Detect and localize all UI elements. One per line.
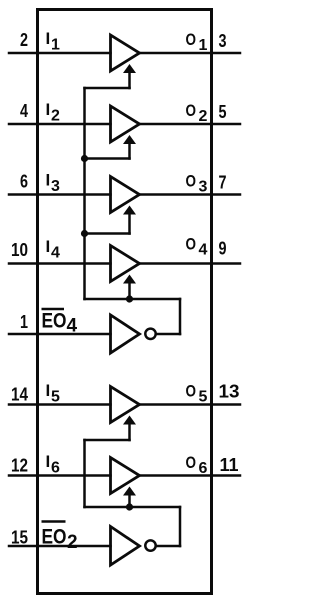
enable arrow into buffer U1	[123, 64, 136, 88]
svg-text:O: O	[186, 235, 197, 254]
node label O1	[186, 30, 208, 54]
wire EO4 feedback riser	[179, 299, 182, 334]
svg-text:4: 4	[20, 101, 28, 121]
node label I2	[46, 100, 61, 125]
buffer U6 (I6→O6)	[111, 458, 140, 494]
svg-text:10: 10	[11, 240, 28, 260]
wire EO4 enable trunk vertical	[83, 88, 86, 299]
svg-text:6: 6	[20, 172, 28, 192]
wire O4 output (buffer 4 to pin 9)	[140, 262, 241, 265]
wire O3 output (buffer 3 to pin 7)	[140, 193, 241, 196]
wire I5 input (pin 14 to buffer 5)	[9, 403, 111, 406]
svg-text:O: O	[186, 30, 197, 49]
inverter U8 output bubble	[145, 540, 155, 550]
svg-text:2: 2	[20, 30, 28, 50]
buffer U5 (I5→O5)	[111, 387, 140, 423]
wire branch to buffer U1	[85, 87, 130, 90]
inverter U7 output bubble	[145, 329, 155, 339]
wire EO4 enable bus horizontal	[85, 298, 181, 301]
svg-text:I: I	[46, 381, 51, 400]
enable arrow into buffer U3	[123, 206, 136, 234]
inverter U7 (EO4 enable)	[111, 315, 140, 353]
wire branch to buffer U5	[85, 439, 130, 442]
svg-text:1: 1	[20, 312, 28, 332]
svg-text:14: 14	[11, 385, 28, 405]
svg-text:5: 5	[199, 389, 208, 406]
node label I3	[46, 171, 61, 196]
svg-text:12: 12	[11, 456, 28, 476]
wire I6 input (pin 12 to buffer 6)	[9, 474, 111, 477]
svg-text:5: 5	[51, 389, 60, 406]
node label I6	[46, 452, 61, 477]
svg-text:I: I	[46, 100, 51, 119]
svg-text:3: 3	[219, 31, 227, 51]
enable arrow into buffer U5	[123, 416, 136, 441]
svg-text:15: 15	[11, 528, 28, 548]
wire I3 input (pin 6 to buffer 3)	[9, 193, 111, 196]
svg-text:1: 1	[51, 37, 60, 54]
node label I1	[46, 29, 61, 54]
node label O4	[186, 235, 208, 259]
svg-text:EO: EO	[42, 526, 67, 549]
svg-text:5: 5	[219, 102, 227, 122]
wire branch to buffer U2	[85, 157, 130, 160]
enable arrow into buffer U4	[123, 275, 136, 300]
junction dot enable bus/branch U4	[126, 295, 133, 302]
svg-text:I: I	[46, 452, 51, 471]
node label O5	[186, 382, 208, 406]
wire inverter U7 bubble to feedback riser	[156, 333, 180, 336]
net label EO4 with overline	[42, 309, 78, 337]
svg-text:O: O	[186, 382, 197, 401]
svg-text:EO: EO	[42, 310, 67, 333]
svg-text:O: O	[186, 101, 197, 120]
svg-text:7: 7	[219, 173, 227, 193]
wire EO2 feedback riser	[179, 507, 182, 546]
svg-text:3: 3	[199, 179, 208, 196]
node label O3	[186, 172, 208, 196]
node label O6	[186, 453, 208, 477]
net label EO2 with overline	[42, 522, 78, 554]
wire O2 output (buffer 2 to pin 5)	[140, 123, 241, 126]
svg-text:I: I	[46, 237, 51, 256]
wire EO4 input (pin 1 to inverter U7)	[9, 333, 111, 336]
wire I2 input (pin 4 to buffer 2)	[9, 123, 111, 126]
wire I4 input (pin 10 to buffer 4)	[9, 262, 111, 265]
wire I1 input (pin 2 to buffer 1)	[9, 52, 111, 55]
svg-text:3: 3	[51, 178, 60, 195]
svg-text:4: 4	[67, 316, 78, 337]
wire inverter U8 bubble to feedback riser	[156, 545, 180, 548]
svg-text:6: 6	[51, 460, 60, 477]
buffer U1 (I1→O1)	[111, 35, 140, 71]
enable arrow into buffer U2	[123, 135, 136, 159]
junction dot trunk/branch U2	[81, 155, 88, 162]
enable arrow into buffer U6	[123, 487, 136, 508]
svg-text:4: 4	[199, 242, 208, 259]
wire EO2 enable trunk vertical	[83, 440, 86, 507]
node label O2	[186, 101, 208, 125]
svg-text:11: 11	[220, 455, 239, 475]
wire EO2 input (pin 15 to inverter U8)	[9, 545, 111, 548]
svg-text:9: 9	[219, 239, 227, 259]
wire O5 output (buffer 5 to pin 13)	[140, 403, 241, 406]
node label I5	[46, 381, 61, 406]
svg-text:O: O	[186, 453, 197, 472]
svg-text:O: O	[186, 172, 197, 191]
buffer U2 (I2→O2)	[111, 106, 140, 142]
svg-text:4: 4	[51, 245, 60, 262]
svg-text:2: 2	[67, 532, 78, 553]
svg-text:2: 2	[51, 108, 60, 125]
svg-text:2: 2	[199, 108, 208, 125]
svg-text:6: 6	[199, 460, 208, 477]
wire O6 output (buffer 6 to pin 11)	[140, 474, 241, 477]
junction dot enable bus/branch U6	[126, 503, 133, 510]
wire EO2 enable bus horizontal	[85, 506, 181, 509]
wire branch to buffer U3	[85, 232, 130, 235]
svg-text:I: I	[46, 29, 51, 48]
buffer U4 (I4→O4)	[111, 246, 140, 282]
svg-text:I: I	[46, 171, 51, 190]
svg-text:13: 13	[219, 382, 240, 402]
inverter U8 (EO2 enable)	[111, 527, 140, 566]
buffer U3 (I3→O3)	[111, 177, 140, 213]
wire O1 output (buffer 1 to pin 3)	[140, 52, 241, 55]
node label I4	[46, 237, 61, 262]
svg-text:1: 1	[199, 37, 208, 54]
IC outline	[38, 10, 212, 594]
junction dot trunk/branch U3	[81, 230, 88, 237]
